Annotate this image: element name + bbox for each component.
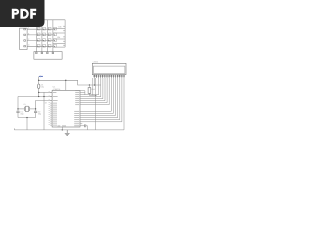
wire RST net: [38, 80, 40, 84]
svg-text:X1: X1: [23, 103, 25, 106]
wire VCC rail to LCD: [14, 80, 124, 130]
U1 left pin labels: [53, 92, 58, 125]
LCD pin number marks: [94, 75, 125, 77]
crystal X1: [24, 106, 29, 111]
wire VCC drop to U1 pin40: [65, 80, 67, 90]
U1 right pins upper P0: [80, 91, 109, 105]
wire keypad column C4: [52, 20, 54, 52]
svg-text:30p: 30p: [20, 113, 23, 116]
wire C4 to rail: [86, 126, 88, 130]
U1 left pins: [50, 92, 52, 125]
PDF badge: [0, 0, 45, 27]
pot RV1 legs: [89, 85, 95, 130]
svg-text:30p: 30p: [38, 113, 41, 116]
wire EA line: [43, 92, 45, 129]
resistor network divider 1: [53, 28, 65, 30]
connector J1 pins: [24, 29, 26, 47]
ground rail: [14, 129, 124, 131]
svg-text:AT89C51: AT89C51: [53, 88, 61, 91]
resistor network divider 3: [53, 38, 65, 40]
junction dots: [17, 80, 96, 131]
wire XTAL1 net: [18, 96, 52, 98]
resistor network bottom: [53, 46, 65, 48]
wire caps common: [18, 117, 36, 119]
capacitor C1 plates: [16, 111, 19, 112]
resistor network divider 2: [53, 32, 65, 34]
ground symbol: [65, 130, 70, 136]
wire keypad row R2: [27, 34, 53, 36]
connector J2 pins: [36, 52, 54, 54]
wire keypad column C1: [35, 20, 37, 52]
U1 right pin labels: [74, 91, 79, 126]
wire keypad right bus: [64, 20, 66, 47]
connector J1 keypad rows: [20, 28, 28, 49]
wire keypad row R3: [27, 40, 53, 42]
LCD module body: [92, 63, 126, 74]
wire keypad row R4: [27, 45, 53, 47]
connector J2 keypad columns: [34, 52, 62, 60]
resistor network divider 4: [53, 42, 65, 44]
svg-text:LCD1: LCD1: [93, 60, 99, 63]
power flag VCC: [39, 76, 43, 81]
U1 right pins lower P2: [80, 111, 122, 126]
U1 left pin numbers: [49, 92, 50, 125]
wire keypad column C3: [46, 20, 48, 52]
LCD display window: [93, 66, 125, 73]
wire crystal row: [18, 108, 24, 110]
U1 bottom labels: [58, 125, 67, 127]
capacitor C3 body: [38, 84, 40, 89]
wire XTAL2 net: [36, 99, 53, 101]
LCD pin1 VSS drop: [93, 78, 96, 95]
row net labels: [28, 27, 30, 47]
capacitor C2 plates: [34, 111, 37, 112]
capacitor C4 at U1 pin: [85, 124, 86, 127]
wire keypad row R1: [27, 28, 53, 30]
LCD pin row: [94, 75, 124, 78]
svg-text:RV1: RV1: [91, 88, 95, 91]
U1 bottom pins: [61, 127, 63, 130]
svg-text:19: 19: [45, 102, 47, 105]
resistor network pin ticks: [63, 25, 65, 27]
wire keypad column C2: [41, 20, 43, 52]
pot RV1 body: [88, 88, 91, 94]
keypad buttons 4x4: [37, 27, 56, 47]
capacitor C2 legs: [35, 109, 37, 111]
svg-text:10u: 10u: [41, 86, 44, 89]
wire crystal left leg: [17, 97, 19, 109]
wire keypad top bus: [36, 19, 65, 21]
capacitor C1 legs: [17, 109, 19, 111]
staircase risers to LCD: [99, 78, 124, 130]
keypad button dots: [37, 29, 54, 47]
IC U1 AT89C51 body: [52, 90, 80, 127]
